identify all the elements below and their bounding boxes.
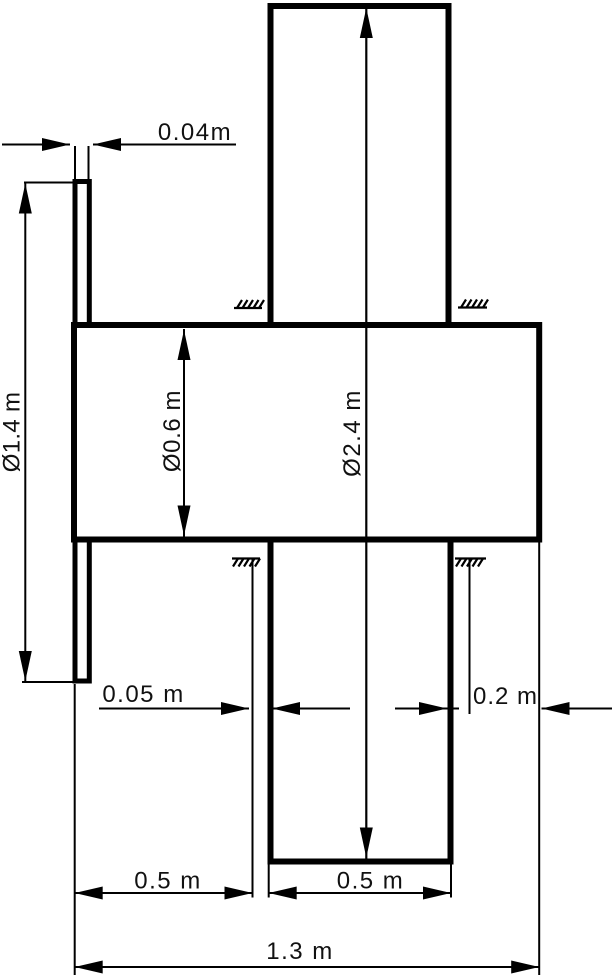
svg-text:1.3 m: 1.3 m [266,938,334,965]
extension line right (hub right edge) [538,542,540,975]
dimension 0.04 m (disc width, top-left) [2,145,236,180]
svg-text:Ø0.6 m: Ø0.6 m [159,390,186,472]
top rectangle (upper shaft section, 0.5 m wide) [271,6,449,325]
extension line from bottom-right hatch [469,559,471,714]
extension line left (hub left edge) [74,684,76,975]
disc (thin flywheel disc, 0.04 m wide, Ø1.4 m) [75,182,89,682]
hatch support top-right [458,300,488,308]
middle rectangle (hub section Ø0.6 m, 1.3 m long) [74,325,539,540]
dimension 0.5 m (right) [269,892,451,894]
dimension Ø0.6 m (hub bore) [183,329,185,537]
dimension 0.05 m [99,708,350,710]
extension line bottom rect right [450,864,452,898]
hatch support bottom-left [232,559,260,567]
svg-text:0.5 m: 0.5 m [134,868,202,895]
dimension 0.2 m [395,708,612,710]
svg-text:0.5 m: 0.5 m [337,868,405,895]
hatch support top-left [234,300,264,308]
svg-text:Ø1.4 m: Ø1.4 m [0,392,26,473]
svg-text:0.2 m: 0.2 m [473,683,538,710]
hatch support bottom-right [455,559,486,567]
svg-text:0.05 m: 0.05 m [102,681,184,708]
dimension 1.3 m (overall) [75,966,540,968]
dimension Ø1.4 m (disc diameter, left) [22,183,76,683]
svg-text:0.04m: 0.04m [158,119,232,146]
bottom rectangle (lower shaft section, 0.5 m wide) [271,540,451,862]
svg-text:Ø2.4 m: Ø2.4 m [339,389,366,477]
extension line from bottom-left hatch [252,559,254,898]
dimension 0.5 m (left) [75,892,253,894]
extension line bottom rect left [268,864,270,898]
dimension Ø2.4 m (flywheel diameter, vertical) [365,7,367,859]
